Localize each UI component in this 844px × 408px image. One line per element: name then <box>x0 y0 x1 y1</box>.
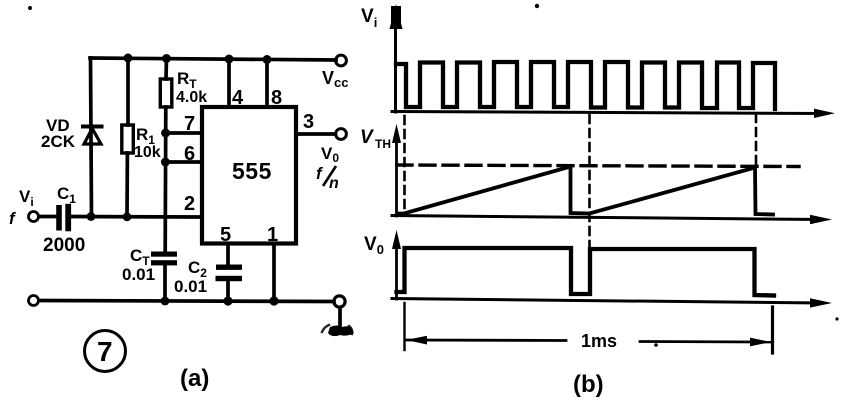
axis V0 horizontal baseline with arrow <box>392 299 820 304</box>
figure number circled 7 <box>85 331 126 372</box>
dimension 1ms arrow line left <box>407 339 566 342</box>
svg-text:555: 555 <box>232 158 272 184</box>
op-amp U1 555 IC body <box>202 107 296 244</box>
axis V0 vertical with arrow <box>395 244 398 299</box>
label V0 (waveform) <box>364 234 384 257</box>
wire pin 7 <box>166 131 202 135</box>
node junction dot pin6 <box>161 158 170 167</box>
dashed vertical marker x=404 <box>403 116 406 213</box>
wire pin 3 output <box>296 132 336 136</box>
node junction dot diode/signal <box>87 212 96 221</box>
axis VTH vertical with arrow <box>395 138 398 216</box>
label Vi (waveform) <box>361 6 377 30</box>
wire top supply rail <box>90 58 336 60</box>
svg-text:0.01: 0.01 <box>122 265 155 284</box>
node junction dot R1/top rail <box>124 54 133 63</box>
speck bottom middle <box>654 343 658 347</box>
svg-text:n: n <box>329 175 339 192</box>
waveform VTH sawtooth <box>397 167 773 215</box>
svg-text:V: V <box>360 127 374 148</box>
dashed vertical marker x=756 <box>755 114 758 166</box>
wire pin 8 <box>265 60 269 108</box>
svg-text:3: 3 <box>303 111 314 133</box>
svg-text:4.0k: 4.0k <box>176 89 207 106</box>
node junction dot pin8/top rail <box>263 55 272 64</box>
waveform V0 output square wave <box>397 248 775 296</box>
wire C2 to ground <box>226 281 230 301</box>
node junction dot CT/ground <box>161 297 170 306</box>
terminal ground right <box>334 296 345 307</box>
wire CT to ground <box>163 265 167 301</box>
axis VTH horizontal baseline with arrow <box>392 216 820 220</box>
label 1ms <box>581 331 617 351</box>
resistor RT <box>160 58 172 252</box>
diode VD (cathode bar) <box>83 125 102 129</box>
resistor R1 <box>122 58 134 217</box>
speck top left <box>28 6 32 10</box>
wire left vertical branch (diode branch) <box>91 58 92 217</box>
svg-text:2: 2 <box>184 193 195 215</box>
svg-text:2000: 2000 <box>43 235 85 256</box>
wire pin 4 <box>227 59 231 107</box>
axis Vi vertical with arrow <box>394 22 397 112</box>
terminal ground left <box>29 296 39 306</box>
svg-text:8: 8 <box>271 87 282 109</box>
svg-text:5: 5 <box>220 224 231 246</box>
ground stub wire <box>338 308 342 327</box>
wire pin 6 <box>165 160 202 164</box>
svg-text:10k: 10k <box>134 144 161 161</box>
svg-text:1: 1 <box>267 224 278 246</box>
node junction dot R1/signal <box>123 212 132 221</box>
capacitor CT (plates) <box>151 252 177 266</box>
label VTH <box>360 127 391 151</box>
dimension 1ms right end bar <box>771 307 774 353</box>
terminal input Vi <box>29 212 39 222</box>
axis Vi horizontal baseline with arrow <box>392 112 824 114</box>
capacitor C2 (plates) <box>216 265 243 282</box>
node junction dot pin4/top rail <box>225 55 234 64</box>
node junction dot pin7 <box>161 129 170 138</box>
node junction dot pin1/ground <box>269 296 278 305</box>
waveform Vi pulse train <box>396 62 775 109</box>
threshold dashed line <box>397 165 799 167</box>
capacitor C1 (plates) <box>56 204 71 232</box>
svg-text:2CK: 2CK <box>41 132 76 151</box>
svg-text:1ms: 1ms <box>581 331 617 351</box>
diode VD (triangle) <box>84 129 101 145</box>
svg-text:(a): (a) <box>180 365 209 392</box>
ground (smudged symbol) <box>322 325 354 336</box>
dimension 1ms left end bar <box>403 303 405 350</box>
label f/n <box>316 164 339 192</box>
speck top middle <box>535 4 539 8</box>
svg-text:6: 6 <box>184 143 195 165</box>
terminal Vcc <box>336 55 347 66</box>
svg-text:7: 7 <box>184 113 195 135</box>
wire bottom ground rail <box>39 301 334 302</box>
wire pin 1 <box>272 244 276 302</box>
wire input signal line to pin 2 <box>39 215 56 219</box>
node junction dot RT/top rail <box>162 54 171 63</box>
svg-text:TH: TH <box>375 137 391 151</box>
speck right <box>835 317 838 320</box>
dimension 1ms arrow line right <box>640 340 770 343</box>
terminal output V0 <box>336 129 347 140</box>
svg-text:7: 7 <box>97 336 113 367</box>
svg-text:(b): (b) <box>573 371 604 398</box>
node junction dot C2/ground <box>223 296 232 305</box>
dashed vertical marker x=589 <box>588 115 591 249</box>
wire pin 5 <box>226 244 230 266</box>
svg-text:0.01: 0.01 <box>174 277 207 296</box>
svg-text:4: 4 <box>232 87 244 109</box>
